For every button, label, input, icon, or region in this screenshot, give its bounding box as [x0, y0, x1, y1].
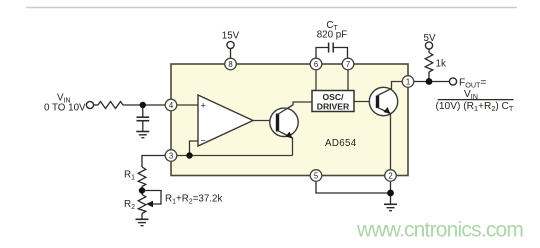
svg-text:820 pF: 820 pF: [317, 30, 348, 41]
svg-text:(10V) (R1+R2) CT: (10V) (R1+R2) CT: [436, 101, 514, 113]
svg-text:R1+R2=37.2k: R1+R2=37.2k: [165, 194, 222, 206]
svg-text:1k: 1k: [436, 59, 446, 70]
svg-text:FOUT=: FOUT=: [459, 78, 486, 90]
svg-text:R2: R2: [124, 199, 135, 211]
svg-text:8: 8: [228, 60, 232, 69]
svg-text:15V: 15V: [222, 31, 240, 42]
svg-text:2: 2: [388, 171, 392, 180]
svg-text:4: 4: [169, 101, 174, 110]
svg-text:0 TO 10V: 0 TO 10V: [44, 103, 86, 114]
svg-text:DRIVER: DRIVER: [317, 101, 350, 111]
svg-text:3: 3: [169, 151, 173, 160]
svg-text:R1: R1: [124, 170, 135, 182]
svg-text:5V: 5V: [424, 33, 436, 44]
svg-text:5: 5: [314, 171, 319, 180]
svg-text:7: 7: [346, 60, 350, 69]
svg-text:1: 1: [406, 77, 410, 86]
svg-text:AD654: AD654: [325, 138, 357, 149]
svg-text:6: 6: [314, 60, 318, 69]
svg-text:www.cntronics.com: www.cntronics.com: [356, 219, 523, 242]
svg-text:+: +: [201, 101, 206, 111]
svg-text:−: −: [201, 136, 206, 146]
